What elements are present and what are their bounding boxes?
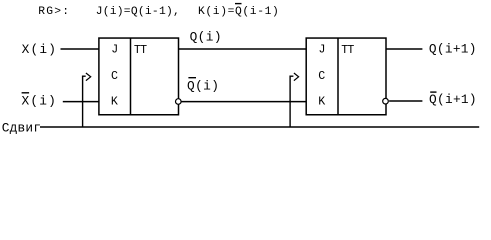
svg-text:J: J	[319, 43, 326, 56]
flip-flop DD1 box	[99, 38, 179, 115]
dynamic input chevron second flip-flop	[294, 73, 299, 81]
svg-text:C: C	[318, 70, 325, 83]
wire Q-bar(i+1) output	[389, 100, 422, 102]
svg-text:C: C	[111, 70, 118, 83]
overbar on X	[22, 92, 30, 94]
svg-text:J: J	[111, 43, 118, 56]
svg-text:Q(i): Q(i)	[190, 29, 222, 44]
flip-flop DD2 box	[306, 38, 386, 115]
svg-text:TT: TT	[134, 44, 147, 57]
wire X-bar(i) to K input	[63, 101, 99, 103]
inversion bubble DD2	[383, 98, 389, 104]
overbar on Q-bar(i)	[188, 77, 196, 79]
wire X(i) to J input	[61, 48, 99, 50]
dynamic input chevron first flip-flop	[86, 73, 91, 81]
wire Сдвиг horizontal bus	[40, 126, 479, 128]
wire riser to C input of second flip-flop	[290, 76, 293, 127]
svg-text:X(i): X(i)	[22, 42, 58, 57]
svg-text:X(i): X(i)	[22, 94, 58, 109]
wire Q(i+1) output	[386, 48, 422, 50]
svg-text:K(i)=Q(i-1): K(i)=Q(i-1)	[198, 6, 279, 18]
wire Q-bar(i) from bubble to DD2 K input	[182, 101, 307, 103]
overbar on Q in title	[235, 3, 242, 5]
svg-text:Сдвиг: Сдвиг	[2, 120, 41, 135]
overbar on Q-bar(i+1)	[430, 91, 436, 93]
svg-text:K: K	[318, 96, 325, 109]
DD2 divider	[337, 38, 339, 115]
svg-text:TT: TT	[341, 44, 354, 57]
svg-text:Q(i+1): Q(i+1)	[429, 42, 477, 57]
svg-text:Q(i+1): Q(i+1)	[429, 92, 477, 107]
svg-text:Q(i): Q(i)	[187, 79, 219, 94]
svg-text:J(i)=Q(i-1),: J(i)=Q(i-1),	[96, 6, 180, 18]
wire Q(i) from DD1 to DD2 J input	[179, 48, 307, 50]
DD1 divider	[130, 38, 132, 115]
svg-text:RG>:: RG>:	[38, 6, 70, 18]
wire riser to C input of first flip-flop	[83, 76, 86, 127]
svg-text:K: K	[111, 96, 118, 109]
inversion bubble DD1	[176, 99, 182, 105]
